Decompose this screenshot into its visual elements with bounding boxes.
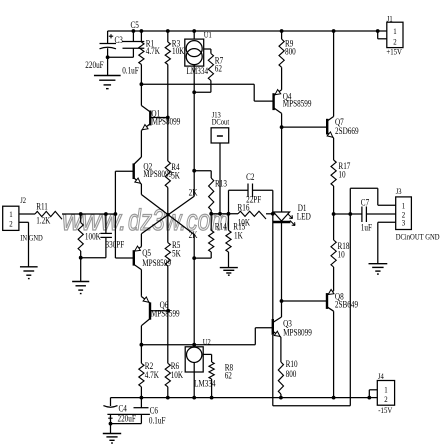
resistor 100K — [78, 214, 101, 258]
svg-text:5K: 5K — [171, 171, 180, 181]
junction R9 top — [280, 29, 284, 33]
wire diagonal 2K upper — [141, 195, 194, 235]
svg-text:J4: J4 — [378, 371, 384, 381]
svg-text:3: 3 — [402, 218, 406, 228]
capacitor C6 0.1uF — [134, 398, 166, 426]
connector J13 DCout — [211, 110, 230, 214]
svg-text:+15V: +15V — [386, 47, 402, 57]
svg-text:1: 1 — [393, 26, 397, 36]
resistor R3 10K — [165, 31, 184, 118]
junction U1 top — [192, 29, 196, 33]
diode D1 LED — [273, 127, 311, 301]
svg-text:1: 1 — [384, 385, 388, 395]
svg-text:4.7K: 4.7K — [145, 370, 159, 380]
svg-text:62: 62 — [215, 64, 222, 74]
ground J3 — [369, 264, 388, 274]
wire C6 bottom loop — [111, 423, 142, 425]
junction U2 top — [192, 343, 196, 347]
transistor Q6 MPS8599 — [141, 296, 179, 345]
svg-text:5K: 5K — [172, 249, 181, 259]
resistor R16 10K — [238, 203, 273, 228]
svg-text:GND: GND — [29, 233, 44, 243]
svg-text:IN: IN — [20, 233, 27, 243]
junction Q7 collector rail — [332, 29, 336, 33]
svg-text:10: 10 — [338, 170, 345, 180]
svg-text:C2: C2 — [246, 172, 254, 182]
resistor R13 — [194, 171, 227, 214]
resistor R4 5K — [165, 118, 180, 215]
wire 330PF to 100K — [81, 257, 106, 259]
wire J2 pin2 to ground — [19, 221, 29, 223]
svg-text:U1: U1 — [204, 30, 212, 40]
svg-text:1.2K: 1.2K — [36, 216, 50, 226]
junction Q6 base — [166, 309, 170, 313]
svg-text:MPS8599: MPS8599 — [142, 258, 171, 268]
junction U2 bottom — [192, 396, 196, 400]
svg-text:MPS8599: MPS8599 — [283, 99, 312, 109]
capacitor C5 0.1uF — [122, 20, 144, 75]
junction R13 top — [192, 169, 196, 173]
junction R8 bottom — [210, 396, 214, 400]
wire feedback loop bottom — [273, 405, 351, 407]
svg-text:1K: 1K — [234, 231, 243, 241]
junction rail2 left — [140, 82, 144, 86]
junction Q1 base / R3-R4 node — [166, 116, 170, 120]
wire C2/R16 node to Q3 base bar — [272, 214, 274, 319]
svg-text:C7: C7 — [361, 198, 369, 208]
svg-text:C6: C6 — [150, 406, 158, 416]
resistor R7 62 — [194, 49, 223, 92]
capacitor C2 22PF — [229, 172, 273, 214]
transistor Q7 2SD669 — [327, 31, 358, 160]
svg-text:LM334: LM334 — [187, 66, 209, 76]
resistor R10 800 — [278, 359, 297, 397]
svg-text:2: 2 — [393, 37, 397, 47]
capacitor C4 220uF — [103, 398, 149, 434]
svg-text:C5: C5 — [131, 20, 139, 30]
resistor R6 10K — [165, 311, 183, 398]
svg-text:100K: 100K — [85, 232, 101, 242]
connector J3 — [396, 186, 440, 241]
svg-text:330PF: 330PF — [106, 240, 125, 250]
svg-text:10K: 10K — [171, 370, 183, 380]
svg-text:2K: 2K — [189, 188, 198, 198]
junction C4 ground stem — [109, 422, 113, 426]
junction R2 bottom — [140, 396, 144, 400]
junction output R17-R18 — [332, 212, 336, 216]
junction Q6c-R2 — [140, 343, 144, 347]
junction C2-R15-R16 — [227, 212, 231, 216]
svg-text:0.1uF: 0.1uF — [149, 416, 166, 426]
capacitor C7 1uF — [361, 198, 396, 233]
transistor Q3 MPS8099 — [273, 301, 312, 406]
svg-text:2: 2 — [384, 394, 388, 404]
junction diagonals cross — [167, 213, 170, 216]
wire Q4e to Q7 base — [282, 126, 328, 128]
wire D1 end column — [193, 235, 195, 345]
capacitor C3 220uF — [85, 31, 123, 76]
svg-text:DCinOUT GND: DCinOUT GND — [396, 232, 440, 242]
svg-text:MPS8599: MPS8599 — [151, 309, 180, 319]
connector J2 — [3, 195, 44, 242]
wire top +15V rail — [108, 30, 378, 32]
svg-text:LM334: LM334 — [194, 379, 216, 389]
current source U2 LM334 — [185, 337, 215, 398]
resistor R5 5K — [165, 215, 181, 311]
wire bias rail to Q4 base — [141, 83, 254, 85]
transistor Q8 2SB649 — [327, 289, 358, 397]
resistor R17 10 — [331, 160, 350, 214]
resistor R8 62 — [203, 354, 233, 397]
svg-text:J2: J2 — [20, 195, 26, 205]
transistor Q4 MPS8599 — [274, 90, 312, 128]
junction R1 top — [140, 29, 144, 33]
wire Q2/Q5 base column — [114, 171, 116, 258]
junction R10 bottom — [279, 396, 283, 400]
junction Q8 emitter bottom — [332, 396, 336, 400]
wire U1 tail column — [193, 92, 195, 196]
svg-text:2SD669: 2SD669 — [335, 126, 359, 136]
junction J1 — [376, 29, 380, 33]
capacitor 330PF — [100, 214, 124, 258]
svg-text:J3: J3 — [396, 186, 402, 196]
svg-text:LED: LED — [297, 212, 311, 222]
resistor R1 4.7K — [139, 31, 160, 84]
svg-text:2: 2 — [9, 219, 13, 229]
svg-text:C4: C4 — [119, 404, 127, 414]
svg-text:C3: C3 — [115, 35, 123, 45]
ground C4 — [103, 434, 121, 444]
wire J3 pin3 to ground — [378, 221, 396, 223]
current source U1 LM334 — [185, 30, 212, 92]
ground 100K — [72, 282, 89, 294]
junction Q3 collector node — [280, 299, 284, 303]
svg-text:800: 800 — [285, 47, 296, 57]
svg-text:22PF: 22PF — [246, 195, 262, 205]
wire D1 cathode to Q8 base — [282, 300, 328, 302]
resistor R11 1.2K — [19, 202, 81, 226]
ground J2 — [20, 267, 38, 279]
junction R3 top — [166, 29, 170, 33]
svg-text:R14: R14 — [215, 222, 227, 232]
svg-text:MPS8099: MPS8099 — [152, 117, 181, 127]
junction output branch — [348, 212, 352, 216]
svg-text:Q5: Q5 — [142, 248, 151, 258]
junction U1-R7 — [192, 90, 196, 94]
svg-text:J1: J1 — [387, 14, 393, 24]
connector J1 — [378, 14, 403, 57]
junction input-100K — [79, 212, 83, 216]
junction R16-C2 right — [271, 212, 275, 216]
resistor R2 4.7K — [139, 345, 159, 398]
wire 100K to ground — [80, 258, 82, 281]
svg-text:MPS8099: MPS8099 — [283, 328, 312, 338]
wire bottom -15V rail — [111, 397, 370, 399]
transistor Q5 MPS8599 — [115, 234, 171, 296]
svg-text:10K: 10K — [238, 218, 250, 228]
svg-text:2SB649: 2SB649 — [335, 300, 358, 310]
svg-text:DCout: DCout — [212, 117, 230, 127]
svg-text:4.7K: 4.7K — [146, 46, 160, 56]
wire output node — [334, 213, 362, 215]
svg-text:800: 800 — [286, 369, 297, 379]
transistor Q1 MPS8099 — [141, 84, 180, 156]
resistor R9 800 — [279, 31, 296, 90]
junction C5 top — [132, 29, 136, 33]
wire output to J3 pin1 and feedback loop column — [349, 188, 351, 214]
junction input-base column — [114, 212, 118, 216]
svg-text:1uF: 1uF — [361, 223, 373, 233]
wire input node — [81, 213, 116, 215]
junction 100K bottom — [79, 256, 83, 260]
ground R15 — [220, 268, 238, 276]
junction input-330PF — [104, 212, 108, 216]
junction R6 bottom — [166, 396, 170, 400]
junction J4 — [367, 396, 371, 400]
svg-text:220uF: 220uF — [85, 60, 104, 70]
junction R14 bottom — [192, 256, 196, 260]
wire diagonal 2K lower — [141, 196, 194, 234]
svg-text:2K: 2K — [189, 230, 198, 240]
resistor R14 — [194, 214, 227, 258]
junction R13-R14 — [209, 212, 213, 216]
svg-text:62: 62 — [225, 371, 232, 381]
svg-text:0.1uF: 0.1uF — [122, 66, 139, 76]
connector J4 — [369, 371, 394, 415]
svg-text:10: 10 — [338, 250, 345, 260]
wire Q6 collector to U2 and Q3 base — [141, 344, 255, 346]
junction Q4 emitter / Q7 base / D1 — [280, 125, 284, 129]
svg-text:R10: R10 — [286, 359, 298, 369]
svg-text:R11: R11 — [36, 202, 48, 212]
wire C3-C5 bottom junction — [108, 56, 134, 58]
svg-text:R13: R13 — [215, 179, 227, 189]
svg-text:U2: U2 — [203, 337, 211, 347]
wire feedback node row — [211, 213, 238, 215]
junction J13 pin — [218, 212, 222, 216]
ground for C3 — [94, 76, 121, 89]
svg-text:10K: 10K — [172, 46, 184, 56]
junction C3 bottom — [106, 55, 110, 59]
transistor Q2 MPS8099 — [115, 157, 172, 195]
resistor R15 1K — [226, 214, 245, 268]
svg-text:220uF: 220uF — [118, 414, 137, 424]
resistor R18 10 — [331, 214, 349, 291]
svg-text:-15V: -15V — [378, 405, 392, 415]
